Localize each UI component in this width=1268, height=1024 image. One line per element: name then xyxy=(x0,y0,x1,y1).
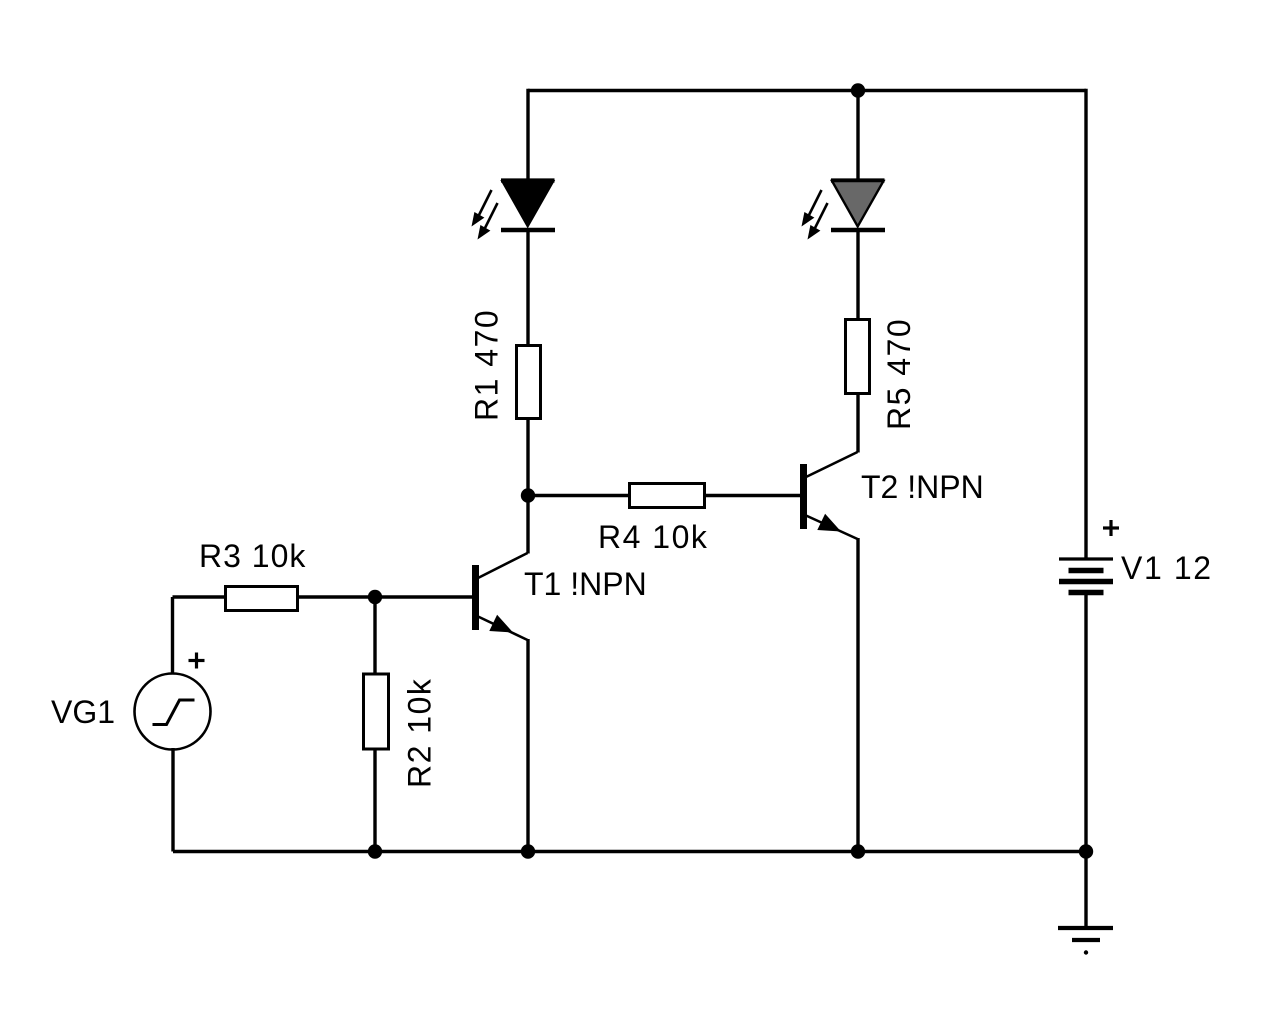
wire junction to ground xyxy=(1084,852,1087,928)
LED D1 top bar xyxy=(501,178,555,182)
wire right rail (top corner to battery V1) xyxy=(1084,89,1087,558)
resistor R2 xyxy=(364,674,389,749)
svg-text:R2 10k: R2 10k xyxy=(402,678,438,788)
junction dot R2 / bottom rail xyxy=(368,844,382,858)
wire LED D2 to resistor R5 xyxy=(856,230,859,319)
battery V1 xyxy=(1059,559,1113,593)
LED D1 emission arrow 2 xyxy=(478,203,498,240)
wire R4 to T2 base xyxy=(705,494,801,497)
wire T2 emitter to bottom rail xyxy=(856,538,859,852)
wire right branch vertical (top rail to LED D2) xyxy=(856,89,859,180)
wire LED D1 to resistor R1 xyxy=(526,230,529,345)
node A junction dot xyxy=(521,488,535,502)
wire R3 to node B xyxy=(298,595,473,598)
svg-text:T2 !NPN: T2 !NPN xyxy=(861,469,984,505)
resistor R1 xyxy=(517,346,541,419)
battery plus sign xyxy=(1103,520,1119,536)
svg-text:R3 10k: R3 10k xyxy=(199,538,306,574)
wire R5 to T2 collector xyxy=(856,393,859,453)
svg-text:R4 10k: R4 10k xyxy=(598,519,708,555)
wire bottom rail xyxy=(173,850,1086,853)
wire VG1 top to corner xyxy=(171,597,174,674)
junction dot top rail / D2 branch xyxy=(851,83,865,97)
wire node B to resistor R2 xyxy=(373,597,376,674)
resistor R4 xyxy=(630,484,705,508)
svg-text:R1 470: R1 470 xyxy=(469,309,505,421)
resistor R3 xyxy=(226,587,298,611)
resistor R5 xyxy=(846,320,870,394)
transistor T2 xyxy=(800,452,858,539)
node B junction dot xyxy=(368,590,382,604)
wire left branch vertical (top rail to LED D1) xyxy=(526,89,529,180)
wire battery V1 to bottom rail xyxy=(1084,595,1087,852)
svg-text:T1 !NPN: T1 !NPN xyxy=(524,566,647,602)
junction dot T2 emitter / bottom rail xyxy=(851,844,865,858)
LED D1 triangle xyxy=(502,181,554,227)
LED D2 cathode bar xyxy=(831,228,885,233)
svg-text:R5 470: R5 470 xyxy=(881,318,917,430)
LED D1 cathode bar xyxy=(501,228,555,233)
transistor T1 xyxy=(472,553,528,640)
junction dot bottom right corner xyxy=(1079,844,1093,858)
LED D2 triangle (gray) xyxy=(832,181,884,227)
svg-text:V1 12: V1 12 xyxy=(1121,550,1213,586)
wire T1 emitter to bottom rail xyxy=(526,639,529,852)
ground xyxy=(1058,928,1113,955)
LED D1 emission arrow 1 xyxy=(472,190,492,227)
wire R2 to bottom rail xyxy=(373,748,376,852)
wire VG1 bottom to bottom rail xyxy=(171,748,174,852)
wire top rail xyxy=(528,89,1086,92)
wire corner to resistor R3 xyxy=(173,595,226,598)
LED D2 top bar xyxy=(831,178,885,182)
junction dot T1 emitter / bottom rail xyxy=(521,844,535,858)
wire R1 to node A xyxy=(526,419,529,554)
svg-text:VG1: VG1 xyxy=(51,694,115,730)
VG1 plus sign xyxy=(189,653,205,669)
generator VG1 xyxy=(135,674,211,750)
LED D2 emission arrow 2 xyxy=(808,203,828,240)
LED D2 emission arrow 1 xyxy=(802,190,822,227)
wire node A to resistor R4 xyxy=(528,494,630,497)
